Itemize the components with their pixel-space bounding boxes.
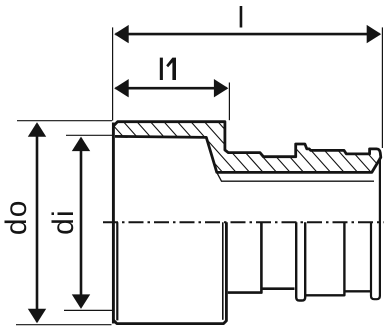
lower half: left end chamfer line [116, 222, 118, 320]
svg-text:l: l [238, 2, 245, 35]
pipe end face edge (vertical through both halves) [379, 158, 381, 297]
lower half: right end chamfer line of large body [222, 222, 224, 319]
dimension l1: label text (drawn as paths, Arial-style 1 without foot) [160, 58, 176, 80]
dimension do: top extension line [17, 120, 112, 122]
dimension do: bottom extension line [16, 324, 112, 326]
lower half: first barb shoulder silhouette [228, 222, 262, 292]
dimension l: left arrowhead [114, 25, 129, 43]
dimension l: right extension line [381, 27, 383, 148]
lower half: barb ridge (U shape) [296, 222, 305, 300]
dimension di: dimension line [80, 139, 83, 307]
dimension di: top arrowhead [72, 137, 90, 152]
dimension do: bottom arrowhead [28, 309, 46, 324]
body outline: left end face (full height vertical) [112, 123, 115, 324]
dimension l1: dimension line [116, 87, 227, 90]
dimension di: top extension line [66, 134, 112, 136]
svg-text:di: di [47, 209, 80, 235]
dimension l: left extension line [112, 27, 114, 120]
lower half: bottom silhouette of large body with chamfered corners and right end face [113, 222, 226, 323]
dimension l: right arrowhead [367, 25, 382, 43]
lower half: flat after barb [305, 222, 344, 295]
hatching (section lines, 45 deg) [95, 105, 385, 245]
dimension l1: left arrowhead [114, 79, 129, 97]
bore silhouette (thin visible line through open end) [217, 173, 374, 181]
dimension l1: right extension line [228, 83, 230, 121]
dimension do: top arrowhead [28, 122, 46, 137]
dimension do: dimension line [36, 124, 39, 322]
dimension di: bottom arrowhead [72, 294, 90, 309]
dimension l1: right arrowhead [214, 79, 229, 97]
dimension l: dimension line [116, 33, 380, 36]
lower half: flat between shoulder and barb [261, 287, 294, 290]
dimension di: bottom extension line [64, 309, 112, 311]
body outline: sectioned upper profile [113, 122, 380, 173]
lower half: flat before end lip [344, 290, 370, 292]
svg-text:do: do [0, 199, 33, 235]
centerline (dash-dot axis) [103, 221, 384, 223]
lower half: end lip (U shape) [371, 222, 380, 299]
